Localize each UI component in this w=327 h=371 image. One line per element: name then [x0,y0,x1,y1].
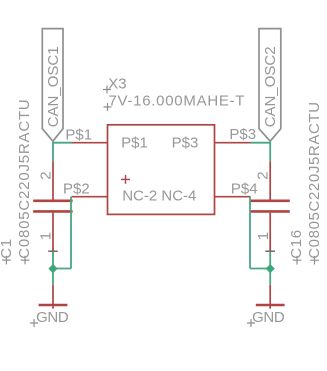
svg-text:GND: GND [36,309,69,326]
svg-text:X3: X3 [108,75,126,92]
C1 value label [16,98,33,264]
pin P$2 of X3 [72,196,108,198]
C16 name label [288,229,305,264]
svg-text:2: 2 [37,171,54,179]
capacitor C16 [250,161,289,251]
svg-text:C0805C220J5RACTU: C0805C220J5RACTU [16,98,33,258]
crystal oscillator X3 body [108,125,215,215]
svg-text:P$1: P$1 [121,135,148,152]
svg-text:P$2: P$2 [63,180,90,197]
svg-text:CAN_OSC2: CAN_OSC2 [262,46,279,127]
capacitor C16 origin cross [265,247,275,256]
wire net GND left [53,197,71,285]
svg-text:C1: C1 [0,238,15,259]
junction right [266,264,275,273]
C16 value label [306,101,323,264]
X3 origin cross [121,175,130,184]
net flag CAN_OSC2 [259,29,281,142]
svg-text:C0805C220J5RACTU: C0805C220J5RACTU [306,101,323,259]
svg-text:C16: C16 [288,229,305,259]
C1 name label [0,238,15,264]
svg-text:2: 2 [255,171,272,179]
pin P$3 of X3 [215,142,251,144]
svg-text:GND: GND [252,309,285,326]
net flag CAN_OSC1 [42,29,63,142]
X3 name label [103,75,127,93]
X3 value label [104,93,246,112]
svg-text:P$1: P$1 [65,127,92,144]
svg-text:NC-2 NC-4: NC-2 NC-4 [122,187,196,204]
wire net GND right [250,197,270,285]
pin P$1 of X3 [72,142,108,144]
svg-text:1: 1 [38,232,55,240]
pin P$4 of X3 [215,196,251,198]
capacitor C1 [33,161,72,251]
capacitor C1 origin cross [48,247,58,256]
svg-text:P$3: P$3 [172,135,199,152]
svg-text:P$4: P$4 [231,180,258,197]
svg-text:7V-16.000MAHE-T: 7V-16.000MAHE-T [109,93,246,110]
svg-text:1: 1 [255,232,272,240]
wire net CAN_OSC2 top [251,142,271,161]
junction left [48,264,57,273]
ground symbol left [30,285,69,327]
svg-text:P$3: P$3 [229,126,256,143]
wire net CAN_OSC1 top [53,142,72,161]
svg-text:CAN_OSC1: CAN_OSC1 [45,46,62,127]
ground symbol right [247,285,285,327]
